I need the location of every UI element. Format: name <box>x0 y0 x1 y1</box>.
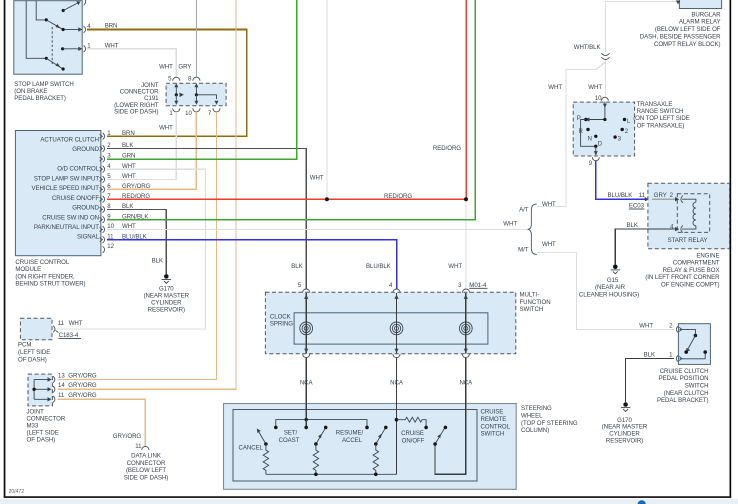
engine compartment relay and fuse box (in left front corner of engine compt) <box>645 183 729 288</box>
svg-text:14: 14 <box>58 382 65 389</box>
wire BLU/BLK: transaxle pin 9 to connector EC03 <box>596 161 646 199</box>
set/coast resistor <box>313 444 318 474</box>
svg-text:ON/OFF: ON/OFF <box>402 437 425 444</box>
svg-text:BRN: BRN <box>122 130 135 137</box>
ground G170 (near master cylinder reservoir, right) <box>602 402 648 444</box>
svg-text:RELAY & FUSE BOX: RELAY & FUSE BOX <box>663 267 720 274</box>
svg-text:NCA: NCA <box>300 379 314 386</box>
cruise module pin 7 CRUISE ON/OFF <box>52 193 111 203</box>
svg-text:BEHIND STRUT TOWER): BEHIND STRUT TOWER) <box>15 281 85 288</box>
wire BLK: clutch switch pin 1 to ground G170 <box>626 352 675 403</box>
clock spring feed wire pin4 to bottom <box>393 293 400 358</box>
wire RED/ORG: cruise module pin 7 across to junction <box>107 193 466 200</box>
junction node on RED/ORG at x=326.9 <box>325 197 329 201</box>
wire M/T branch: WHT to cruise clutch pedal position switch pin 2 <box>537 241 674 330</box>
svg-text:GROUND: GROUND <box>72 205 99 212</box>
switch top rail with end contacts <box>274 418 369 429</box>
svg-text:GRY/ORG: GRY/ORG <box>68 372 97 379</box>
C191 pin 1 (bottom) <box>169 95 180 117</box>
ground G15 (near air cleaner housing) <box>579 265 639 299</box>
svg-text:M33: M33 <box>27 423 39 430</box>
stop lamp switch pin (top, cut off) <box>84 0 86 5</box>
wire GRY/ORG: M33 pin 11 to data link connector <box>57 399 145 446</box>
resume/accel switch <box>336 426 388 446</box>
svg-text:(LEFT SIDE: (LEFT SIDE <box>18 349 50 356</box>
in-line connector EC03 <box>629 196 653 210</box>
svg-text:NCA: NCA <box>390 379 404 386</box>
svg-text:SET/: SET/ <box>284 430 298 437</box>
svg-text:WHT: WHT <box>548 84 562 91</box>
svg-text:STEERING: STEERING <box>521 405 552 412</box>
svg-text:G15: G15 <box>607 277 619 284</box>
svg-text:FUNCTION: FUNCTION <box>520 299 551 306</box>
svg-text:(TOP OF STEERING: (TOP OF STEERING <box>521 420 578 427</box>
svg-text:13: 13 <box>58 372 65 379</box>
svg-text:STOP LAMP SW INPUT: STOP LAMP SW INPUT <box>34 175 99 182</box>
svg-text:COLUMN): COLUMN) <box>521 427 549 434</box>
ground G170 (near master cylinder reservoir) <box>144 274 190 314</box>
svg-text:CONNECTOR: CONNECTOR <box>127 460 166 467</box>
svg-text:GRY/ORG: GRY/ORG <box>122 183 151 190</box>
svg-text:GRN: GRN <box>122 153 135 160</box>
svg-text:DASH, BESIDE PASSENGER: DASH, BESIDE PASSENGER <box>640 34 721 41</box>
clock spring coil 2 <box>390 322 403 335</box>
svg-text:(ON RIGHT FENDER,: (ON RIGHT FENDER, <box>15 273 75 280</box>
svg-text:12: 12 <box>107 243 114 250</box>
stop lamp switch internal contacts and arms <box>26 1 80 71</box>
svg-text:SWITCH: SWITCH <box>685 383 709 390</box>
steering wheel boundary note <box>521 405 578 434</box>
switch bottom rail <box>266 473 397 477</box>
wire GRY: from top edge to joint connector C191 pin 8 <box>178 0 196 77</box>
clock spring coil 3 <box>459 322 472 335</box>
PCM (left side of dash) <box>18 318 52 363</box>
svg-text:BLU/BLK: BLU/BLK <box>122 233 147 240</box>
svg-text:PEDAL BRACKET): PEDAL BRACKET) <box>14 95 66 102</box>
svg-text:11: 11 <box>58 392 65 399</box>
wire GRY/ORG: C191 pin 7 to joint connector M33 pin 13 <box>57 112 216 380</box>
svg-text:ACTUATOR CLUTCH: ACTUATOR CLUTCH <box>40 136 99 143</box>
wire WHT: C191 pin 1 to cruise module pin 5 <box>107 112 176 180</box>
svg-text:10: 10 <box>595 95 602 102</box>
clutch switch pin 2 <box>669 323 682 333</box>
wire NCA: multi-function switch pin 3 to cruise on/off switch <box>435 358 473 475</box>
svg-text:MODULE: MODULE <box>15 266 41 273</box>
svg-text:OF DASH): OF DASH) <box>27 437 56 444</box>
wire BLK: cruise module pin 8 to ground G170 <box>107 203 166 274</box>
C191 pin 5 (top) <box>168 75 180 95</box>
burglar alarm relay (below left side of dash, beside passenger compt relay block) <box>640 0 722 48</box>
wire BLK: start relay pin 4 to ground G15 <box>615 222 675 264</box>
svg-text:CRUISE ON/OFF: CRUISE ON/OFF <box>52 195 99 202</box>
svg-text:(LEFT SIDE: (LEFT SIDE <box>27 430 59 437</box>
wire WHT: from top edge down to RED/ORG junction <box>310 0 327 199</box>
burglar alarm relay pin arrow <box>676 0 681 4</box>
svg-text:10: 10 <box>185 110 192 117</box>
multi-function switch pin 5 (top) <box>298 282 310 293</box>
wire WHT: cruise module pin 10 to A/T-M/T splice <box>107 223 527 230</box>
svg-text:TRANSAXLE: TRANSAXLE <box>637 101 673 108</box>
cancel switch <box>239 429 268 452</box>
cruise remote control switch inner frame <box>233 410 477 482</box>
svg-text:BLK: BLK <box>291 263 302 270</box>
svg-text:PARK/NEUTRAL INPUT: PARK/NEUTRAL INPUT <box>34 224 99 231</box>
transaxle range switch pin 9 (bottom) <box>589 157 600 167</box>
wire GRN: cruise module pin 3 to top edge <box>107 0 297 160</box>
svg-text:BLK: BLK <box>122 203 133 210</box>
svg-text:O/D CONTROL: O/D CONTROL <box>57 166 99 173</box>
C191 pin 7 (bottom) <box>208 101 220 117</box>
svg-text:BLU/BLK: BLU/BLK <box>608 192 633 199</box>
start relay coil <box>682 199 696 229</box>
svg-text:GRY/ORG: GRY/ORG <box>68 382 97 389</box>
cruise module pin 9 CRUISE SW IND ON <box>42 213 111 223</box>
svg-text:CRUISE CONTROL: CRUISE CONTROL <box>15 259 69 266</box>
svg-text:COAST: COAST <box>279 437 300 444</box>
svg-text:CONNECTOR: CONNECTOR <box>27 416 66 423</box>
svg-text:(BELOW LEFT: (BELOW LEFT <box>126 467 166 474</box>
svg-text:(NEAR AIR: (NEAR AIR <box>595 284 626 291</box>
cruise clutch pedal position switch (near clutch pedal bracket) <box>657 324 710 405</box>
svg-text:CRUISE CLUTCH: CRUISE CLUTCH <box>660 368 709 375</box>
M33 pin 13 <box>48 372 97 382</box>
joint connector M33 (left side of dash) <box>27 374 66 443</box>
wire NCA: multi-function switch pin 4 to cruise on/off resistor tap <box>390 358 404 475</box>
clock spring feed wire pin5 to bottom <box>303 293 310 358</box>
svg-text:GRY: GRY <box>654 192 667 199</box>
wire RED/ORG: vertical from top edge to junction <box>433 0 466 199</box>
multi-function switch pin 4 (top) <box>389 282 400 293</box>
svg-text:CLEANER HOUSING): CLEANER HOUSING) <box>579 291 639 298</box>
svg-text:SIGNAL: SIGNAL <box>77 234 100 241</box>
svg-text:RED/ORG: RED/ORG <box>384 193 412 200</box>
svg-text:WHT: WHT <box>542 241 556 248</box>
svg-text:CANCEL: CANCEL <box>239 445 264 452</box>
svg-text:BLK: BLK <box>644 352 655 359</box>
clutch switch internal arm <box>680 329 708 358</box>
multi-function switch (dashed boundary) <box>265 292 550 354</box>
svg-text:P: P <box>577 115 581 122</box>
svg-text:GRY/ORG: GRY/ORG <box>68 392 97 399</box>
svg-text:RED/ORG: RED/ORG <box>122 193 150 200</box>
svg-text:OF ENGINE COMPT): OF ENGINE COMPT) <box>661 282 719 289</box>
resume/accel resistor <box>373 444 378 474</box>
wire GRY: EC03 to start relay pin 2 <box>652 192 675 199</box>
svg-text:PEDAL BRACKET): PEDAL BRACKET) <box>657 397 709 404</box>
svg-text:GRY/ORG: GRY/ORG <box>113 433 142 440</box>
cruise module pin 5 STOP LAMP SW INPUT <box>34 173 111 183</box>
svg-text:D: D <box>598 141 603 148</box>
cruise control module (on right fender, behind strut tower) <box>15 131 101 288</box>
svg-text:PEDAL POSITION: PEDAL POSITION <box>659 375 709 382</box>
svg-text:BLU/BLK: BLU/BLK <box>366 263 391 270</box>
wire GRY/ORG: from top edge to joint connector M33 pin 14 <box>57 0 236 389</box>
svg-text:WHT: WHT <box>122 173 136 180</box>
svg-text:20/472: 20/472 <box>9 489 25 495</box>
svg-text:RED/ORG: RED/ORG <box>433 145 461 152</box>
svg-text:WHT: WHT <box>542 201 556 208</box>
stop lamp switch pin 1 <box>61 42 91 52</box>
svg-text:ENGINE: ENGINE <box>696 252 719 259</box>
svg-text:(IN LEFT FRONT CORNER: (IN LEFT FRONT CORNER <box>645 274 720 281</box>
svg-text:MULTI-: MULTI- <box>520 292 540 299</box>
svg-text:SWITCH: SWITCH <box>481 431 505 438</box>
transaxle switch position contacts P R N D 3 2 L <box>577 115 631 148</box>
svg-text:RESERVOIR): RESERVOIR) <box>606 438 643 445</box>
svg-text:GRY: GRY <box>178 63 191 70</box>
svg-text:(BELOW LEFT SIDE OF: (BELOW LEFT SIDE OF <box>655 26 721 33</box>
wire GRN/BLK: cruise module pin 9 to top edge <box>107 0 475 220</box>
wire WHT: cruise module pin 4 to PCM pin 11 <box>57 163 206 329</box>
clock spring coil 1 <box>300 322 313 335</box>
svg-text:BURGLAR: BURGLAR <box>691 11 721 18</box>
svg-text:11: 11 <box>135 443 142 450</box>
wire WHT: A/T branch up to WHT/BLK junction <box>537 62 606 208</box>
cruise module pin 11 SIGNAL <box>77 233 114 243</box>
svg-text:SIDE OF DASH): SIDE OF DASH) <box>124 475 168 482</box>
clock spring feed wire pin3 to bottom <box>462 293 469 358</box>
svg-text:WHT: WHT <box>105 42 119 49</box>
cancel resistor <box>263 444 268 474</box>
svg-text:CRUISE SW IND ON: CRUISE SW IND ON <box>42 214 99 221</box>
in-line connector WHT/BLK-WHT <box>601 53 609 59</box>
svg-text:WHT: WHT <box>448 263 462 270</box>
svg-text:DATA LINK: DATA LINK <box>131 453 161 460</box>
svg-text:REMOTE: REMOTE <box>481 416 507 423</box>
joint connector C191 (lower right side of dash) <box>114 82 226 116</box>
svg-text:(NEAR CLUTCH: (NEAR CLUTCH <box>664 390 709 397</box>
svg-text:WHT: WHT <box>503 221 517 228</box>
wire GRY/ORG: C191 pin 10 to cruise module pin 6 <box>107 112 196 190</box>
PCM pin 11, connector C183-4 <box>53 320 83 339</box>
svg-text:NCA: NCA <box>459 379 473 386</box>
wire BRN: stop lamp pin 4 to cruise module pin 1 <box>87 22 247 137</box>
svg-text:WHT: WHT <box>639 322 653 329</box>
svg-text:START RELAY: START RELAY <box>668 237 708 244</box>
svg-text:WHT: WHT <box>69 320 83 327</box>
svg-text:11: 11 <box>639 192 646 199</box>
svg-text:WHT/BLK: WHT/BLK <box>574 44 601 51</box>
multi-function switch pin 3 (top), connector M01-4 <box>458 282 487 293</box>
cruise module pin 4 O/D CONTROL <box>57 163 111 173</box>
svg-text:BLK: BLK <box>122 142 133 149</box>
cruise module pin 3 <box>100 153 112 163</box>
svg-text:ACCEL: ACCEL <box>342 437 363 444</box>
wire WHT/BLK: burglar alarm relay to in-line connector <box>574 2 677 53</box>
svg-text:SIDE OF DASH): SIDE OF DASH) <box>114 109 158 116</box>
svg-text:11: 11 <box>58 320 65 327</box>
svg-text:COMPT RELAY BLOCK): COMPT RELAY BLOCK) <box>654 41 721 48</box>
transaxle range switch (on top left side of transaxle) <box>573 101 690 156</box>
wire NCA: multi-function switch pin 5 to cruise remote switch rail <box>300 358 314 420</box>
svg-text:(NEAR MASTER: (NEAR MASTER <box>144 292 190 299</box>
start relay pin 4 <box>670 223 683 232</box>
svg-text:WHT: WHT <box>159 63 173 70</box>
set/coast switch <box>279 426 328 446</box>
wire BLU/BLK: cruise module pin 11 to multi-function switch pin 4 <box>107 233 397 289</box>
A/T - M/T splice brace <box>503 204 537 255</box>
svg-text:WHT: WHT <box>122 163 136 170</box>
transaxle range switch pin 10 (top) <box>595 95 608 102</box>
cruise module pin 1 ACTUATOR CLUTCH <box>40 130 111 144</box>
svg-text:JOINT: JOINT <box>27 409 45 416</box>
svg-text:VEHICLE SPEED INPUT: VEHICLE SPEED INPUT <box>32 185 100 192</box>
clock spring assembly box <box>270 313 488 344</box>
wire BLK: cruise module pin 2 to multi-function switch pin 5 <box>107 142 306 289</box>
start relay pin 2 <box>675 196 683 203</box>
svg-text:R: R <box>579 128 584 135</box>
data link connector (below left side of dash), pin 11 <box>124 443 168 482</box>
svg-text:WHT: WHT <box>159 124 173 131</box>
svg-text:M/T: M/T <box>518 247 529 254</box>
svg-text:(ON TOP LEFT SIDE: (ON TOP LEFT SIDE <box>633 115 690 122</box>
cruise module pin 6 VEHICLE SPEED INPUT <box>32 183 112 193</box>
svg-text:N: N <box>588 136 592 143</box>
C191 internal bus: pin5 node with branch arrow, pin8 node to pin 7 <box>175 93 217 100</box>
svg-text:WHT: WHT <box>310 175 324 182</box>
wire WHT: junction down to multi-function switch pin 3 <box>448 199 466 289</box>
svg-text:RESERVOIR): RESERVOIR) <box>148 307 185 314</box>
svg-text:G170: G170 <box>159 285 174 292</box>
svg-text:BRN: BRN <box>105 22 118 29</box>
svg-text:GROUND: GROUND <box>72 146 99 153</box>
svg-text:OF DASH): OF DASH) <box>18 356 47 363</box>
cruise on/off master switch <box>433 426 447 446</box>
wire WHT: stop lamp pin 1 to joint connector C191 pin 5 <box>87 42 177 77</box>
cruise module pin 12 <box>103 243 115 253</box>
cruise on/off resistor branch <box>395 417 428 444</box>
C191 pin 10 (bottom) <box>185 95 200 117</box>
svg-text:CRUISE: CRUISE <box>481 409 504 416</box>
svg-text:ALARM RELAY: ALARM RELAY <box>679 19 721 26</box>
cruise module pin 8 GROUND <box>72 203 111 213</box>
svg-text:CLOCK: CLOCK <box>270 313 291 320</box>
stop lamp switch (on brake pedal bracket) <box>14 1 82 102</box>
clutch switch pin 1 <box>669 352 682 362</box>
cruise remote control switch (outer housing) <box>224 404 517 490</box>
svg-text:A/T: A/T <box>519 207 529 214</box>
svg-text:PCM: PCM <box>18 342 31 349</box>
stop lamp switch pin 4 <box>65 23 92 33</box>
svg-text:BLK: BLK <box>152 258 163 265</box>
svg-text:SWITCH: SWITCH <box>520 306 544 313</box>
M33 pin 14 <box>48 382 97 392</box>
svg-text:WHEEL: WHEEL <box>521 412 543 419</box>
svg-text:COMPARTMENT: COMPARTMENT <box>673 260 720 267</box>
cruise module pin 10 PARK/NEUTRAL INPUT <box>34 223 115 233</box>
transaxle switch selector feed from pin 10 to P and D <box>581 102 607 156</box>
M33 pin 11 <box>48 392 97 402</box>
svg-text:RESUME/: RESUME/ <box>336 430 364 437</box>
svg-text:CONTROL: CONTROL <box>481 423 511 430</box>
wire WHT: connector down to transaxle range switch pin 10 <box>588 61 605 98</box>
svg-text:OF TRANSAXLE): OF TRANSAXLE) <box>637 122 685 129</box>
svg-text:CYLINDER: CYLINDER <box>151 300 182 307</box>
bottom page strip <box>0 499 738 504</box>
cruise module pin 2 GROUND <box>72 142 111 153</box>
svg-text:RANGE SWITCH: RANGE SWITCH <box>637 108 684 115</box>
C191 pin 8 (top) <box>188 75 200 95</box>
svg-text:WHT: WHT <box>588 84 602 91</box>
svg-text:CRUISE: CRUISE <box>401 430 424 437</box>
junction node on RED/ORG at x=466 <box>464 197 468 201</box>
svg-text:WHT: WHT <box>122 223 136 230</box>
start relay (dashed) <box>668 194 710 244</box>
svg-text:SPRING: SPRING <box>270 321 293 328</box>
svg-text:GRN/BLK: GRN/BLK <box>122 213 148 220</box>
svg-text:BLK: BLK <box>627 222 638 229</box>
M33 internal bus <box>32 380 48 400</box>
